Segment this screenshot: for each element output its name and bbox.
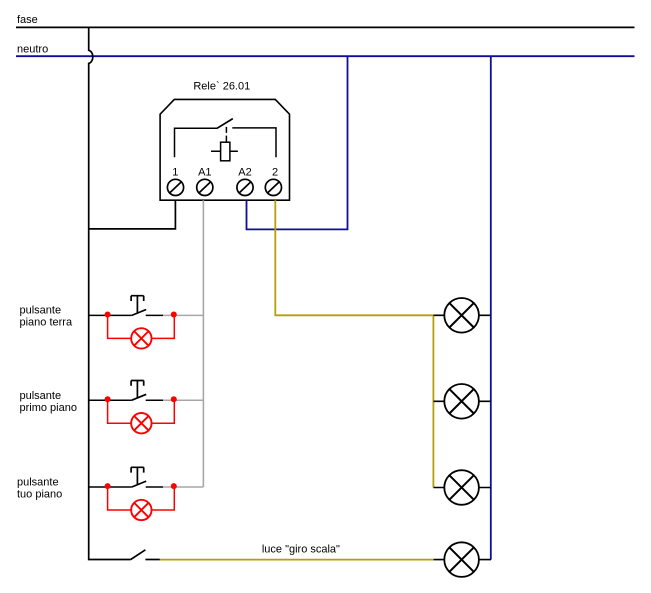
svg-text:A2: A2 (238, 167, 251, 179)
wire: fase bus to S1 contact (89, 314, 132, 316)
svg-text:Rele` 26.01: Rele` 26.01 (193, 80, 250, 92)
wire: indicator lamp H1 branch (red) (108, 315, 175, 338)
wire: terminal 2 down-right to lamp feed (dark yellow) (275, 200, 433, 487)
wire: indicator lamp H2 branch (red) (108, 400, 175, 423)
indicator lamp H3 (131, 500, 151, 520)
screw terminal A2 (237, 179, 253, 195)
wire: fase bus to S3 contact (89, 486, 132, 488)
screw terminal 1 (167, 179, 183, 195)
svg-text:neutro: neutro (17, 44, 48, 56)
junction dot: S1 left node (105, 312, 111, 318)
wire: neutro right bus down to lamps (blue) (490, 56, 492, 559)
svg-text:piano terra: piano terra (20, 316, 73, 328)
pushbutton S1 contact blade (132, 310, 146, 316)
wire: S1 contact to right node (146, 314, 163, 316)
wire: neutro down-left to terminal A2 (blue) (247, 56, 348, 229)
relay U1 body outline (160, 99, 289, 200)
svg-text:luce "giro scala": luce "giro scala" (262, 543, 340, 555)
relay U1 coil link (dashed) (225, 127, 227, 142)
junction dot: S2 right node (171, 396, 177, 402)
svg-text:tuo piano: tuo piano (17, 488, 62, 500)
svg-text:pulsante: pulsante (17, 477, 59, 489)
wire: terminal 1 down-left to fase bus (89, 200, 176, 229)
lamp L3 (434, 470, 492, 505)
wire: S3 right node to A1 bus (gray) (163, 486, 203, 488)
indicator lamp H1 (131, 328, 151, 348)
svg-text:A1: A1 (198, 167, 211, 179)
svg-text:1: 1 (172, 167, 178, 179)
wire: S3 contact to right node (146, 486, 163, 488)
relay U1 contact symbol (175, 119, 277, 158)
lamp L4 (434, 542, 492, 577)
wire: S2 right node to A1 bus (gray) (163, 399, 203, 401)
wire: S1 right node to A1 bus (gray) (163, 314, 203, 316)
switch S4 (luce giro scala) (131, 550, 160, 560)
net fase: top horizontal wire (16, 26, 635, 28)
screw terminal 2 (265, 179, 281, 195)
wire: fase vertical bus with hop over neutro (89, 27, 131, 559)
junction dot: S2 left node (105, 396, 111, 402)
wire: fase bus to S2 contact (89, 399, 132, 401)
junction dot: S3 right node (171, 483, 177, 489)
pushbutton S2 actuator (T) (131, 381, 144, 399)
pushbutton S1 (piano terra) (89, 296, 204, 349)
pushbutton S3 actuator (T) (131, 467, 144, 485)
pushbutton S3 (tuo piano) (89, 467, 204, 520)
wire: indicator lamp H3 branch (red) (108, 487, 175, 510)
svg-text:2: 2 (272, 167, 278, 179)
svg-text:pulsante: pulsante (20, 390, 62, 402)
net neutro: blue horizontal wire (16, 55, 635, 57)
wire: terminal A1 down to pushbutton return bus (gray) (202, 200, 204, 487)
lamp L2 (434, 384, 492, 419)
screw terminal A1 (197, 179, 213, 195)
junction dot: S3 left node (105, 483, 111, 489)
junction dot: S1 right node (171, 312, 177, 318)
svg-text:fase: fase (17, 14, 38, 26)
pushbutton S2 (primo piano) (89, 381, 204, 434)
lamp L1 (434, 298, 492, 333)
pushbutton S2 contact blade (132, 394, 146, 400)
svg-text:pulsante: pulsante (20, 304, 62, 316)
pushbutton S3 contact blade (132, 481, 146, 487)
indicator lamp H2 (131, 413, 151, 433)
svg-text:primo piano: primo piano (20, 402, 77, 414)
pushbutton S1 actuator (T) (131, 296, 144, 314)
wire: switch S4 to lamp L4 (dark yellow) (160, 559, 434, 561)
wire: S2 contact to right node (146, 399, 163, 401)
relay U1 coil (211, 142, 238, 161)
